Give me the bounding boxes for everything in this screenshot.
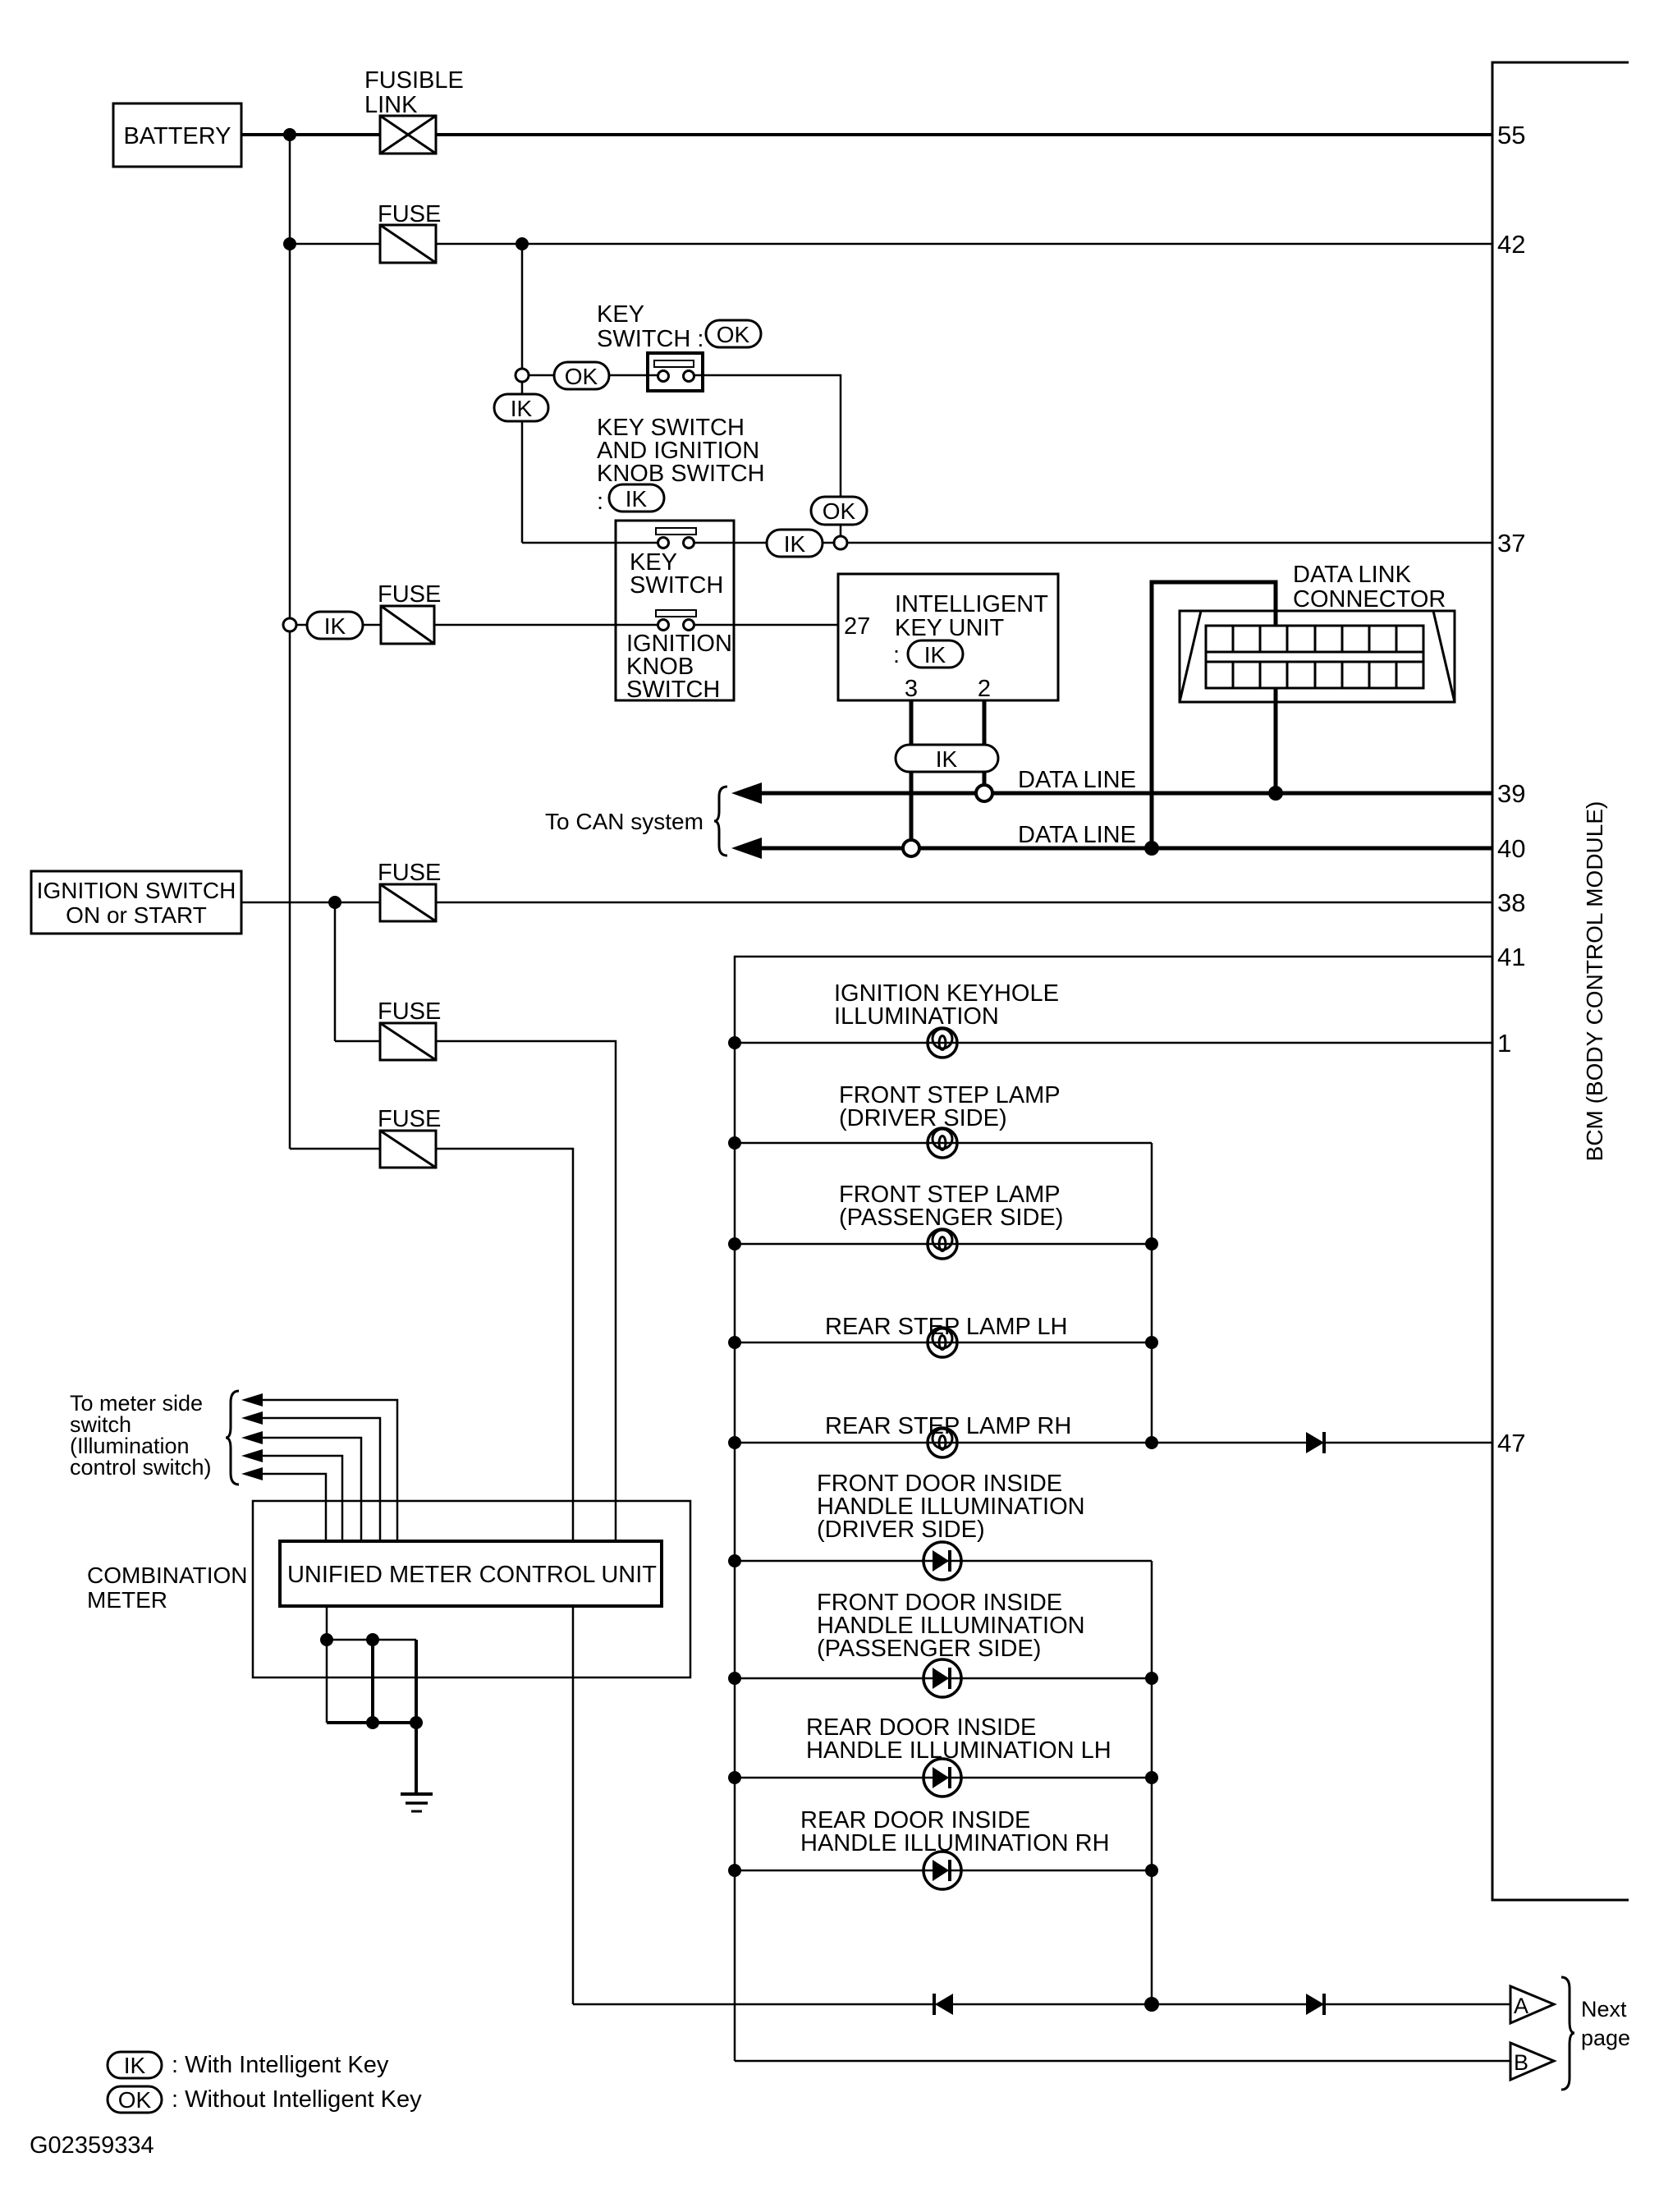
svg-text:ON or START: ON or START: [66, 902, 207, 928]
wire segment after knob contacts to intelligent key unit: [694, 624, 838, 626]
IK pill on key switch output: [767, 530, 823, 557]
node: collector / front step passenger: [1145, 1237, 1158, 1251]
svg-text:page: page: [1581, 2026, 1630, 2050]
wire: fuse row to BCM pin 42: [290, 243, 1492, 246]
node: lamp bus / handle RH: [728, 1864, 741, 1877]
wire: rear step lamp LH branch: [735, 1342, 1152, 1344]
arrowhead: CAN data line 39: [731, 782, 762, 804]
IK pill in unit: [908, 640, 963, 668]
node: collector / handle RH: [1145, 1864, 1158, 1877]
svg-text:KNOB SWITCH: KNOB SWITCH: [597, 461, 765, 487]
svg-text:: With Intelligent Key: : With Intelligent Key: [172, 2052, 389, 2078]
wire: [415, 1640, 418, 1723]
LED: rear door inside handle illumination RH: [923, 1852, 961, 1889]
svg-text:: Without Intelligent Key: : Without Intelligent Key: [172, 2086, 422, 2113]
svg-text:(PASSENGER SIDE): (PASSENGER SIDE): [839, 1205, 1063, 1231]
svg-text:(DRIVER SIDE): (DRIVER SIDE): [817, 1517, 985, 1543]
OK pill on switch output: [811, 497, 867, 525]
ground: [401, 1794, 433, 1811]
IK pill before fuse F2: [307, 612, 363, 639]
svg-text:CONNECTOR: CONNECTOR: [1293, 586, 1446, 613]
wire: handle illumination collector vertical: [1151, 1561, 1153, 2004]
wire: front step lamp driver branch: [735, 1142, 1152, 1145]
svg-text:FUSE: FUSE: [378, 998, 441, 1025]
wire: data line to BCM pin 39 (thick): [757, 792, 1492, 796]
svg-text:SWITCH: SWITCH: [630, 572, 723, 599]
svg-text:REAR STEP LAMP LH: REAR STEP LAMP LH: [825, 1314, 1067, 1340]
svg-text:IK: IK: [324, 613, 346, 639]
svg-text:55: 55: [1497, 121, 1525, 149]
node: lamp bus / front step driver: [728, 1136, 741, 1150]
svg-text:IK: IK: [124, 2053, 146, 2078]
svg-text:BCM (BODY CONTROL MODULE): BCM (BODY CONTROL MODULE): [1582, 801, 1607, 1162]
key switch (OK version) symbol box: [648, 353, 703, 391]
wire: IK unit pin 2 (thick): [983, 700, 987, 793]
node: collector / rear step LH: [1145, 1336, 1158, 1349]
combination meter illumination control wires with arrows: [261, 1400, 397, 1541]
node: ground tree 3: [366, 1716, 379, 1729]
battery box: [113, 103, 241, 167]
svg-text:2: 2: [978, 676, 991, 702]
svg-text:(PASSENGER SIDE): (PASSENGER SIDE): [817, 1636, 1041, 1662]
svg-text:REAR STEP LAMP RH: REAR STEP LAMP RH: [825, 1413, 1071, 1439]
ignition knob switch contacts (IK box, lower): [656, 610, 696, 617]
node: data line 39 / DLC join: [1268, 786, 1283, 801]
fuse F5 (meter feed 2): [380, 1131, 436, 1168]
svg-text:IK: IK: [784, 531, 806, 557]
svg-text:control switch): control switch): [70, 1455, 212, 1480]
svg-text:SWITCH: SWITCH: [626, 677, 720, 703]
OK pill before key switch: [554, 362, 609, 389]
svg-text:47: 47: [1497, 1429, 1525, 1457]
svg-text:ILLUMINATION: ILLUMINATION: [834, 1003, 999, 1030]
svg-text:37: 37: [1497, 529, 1525, 558]
ground tree below unified meter control unit: [326, 1606, 328, 1723]
node: data line 40 / DLC join: [1144, 841, 1159, 856]
brace: CAN group: [714, 787, 727, 856]
option connector node (OK/IK split): [516, 369, 529, 382]
svg-text:IK: IK: [924, 642, 946, 668]
wire: front step lamp passenger branch: [735, 1243, 1152, 1246]
svg-text:LINK: LINK: [364, 92, 418, 118]
option circles on data lines: [976, 785, 992, 801]
svg-text:FUSE: FUSE: [378, 581, 441, 608]
legend: OK pill: [108, 2086, 162, 2113]
IK pill on key branch vertical: [494, 394, 548, 421]
OK pill in label: [706, 320, 761, 347]
wire: A line to next page: [573, 2003, 1510, 2006]
wire: rear door handle RH branch: [735, 1870, 1152, 1872]
svg-text:(DRIVER SIDE): (DRIVER SIDE): [839, 1105, 1007, 1131]
svg-text::: :: [893, 642, 900, 668]
svg-text:FUSE: FUSE: [378, 860, 441, 886]
brace: next page group: [1561, 1977, 1574, 2090]
node: ground tree 2: [366, 1633, 379, 1646]
wire: front door handle passenger branch: [735, 1677, 1152, 1680]
diode D1 on pin 47 line: [1306, 1432, 1324, 1453]
svg-text:To CAN system: To CAN system: [545, 809, 703, 834]
node: lamp bus / rear step LH: [728, 1336, 741, 1349]
lamp: front step lamp passenger side: [928, 1229, 957, 1259]
DLC inner terminal grid: [1206, 626, 1423, 688]
arrowhead: CAN data line 40: [731, 838, 762, 859]
wire: IK unit pin 3 (thick): [910, 700, 914, 848]
svg-text:HANDLE ILLUMINATION RH: HANDLE ILLUMINATION RH: [800, 1830, 1110, 1856]
lamp: rear step lamp RH: [928, 1428, 957, 1457]
option circle data line 40: [903, 840, 919, 856]
svg-text:FUSE: FUSE: [378, 1106, 441, 1132]
IK pill in label: [609, 484, 664, 512]
diode D2 on A line (pointing left): [934, 1994, 953, 2015]
svg-text:OK: OK: [823, 498, 856, 524]
node: ignition fuse tap: [328, 896, 341, 909]
svg-text:Next: Next: [1581, 1997, 1627, 2022]
wire: fuse branch vertical x408: [334, 902, 337, 1041]
fuse F4 (meter feed 1): [380, 1023, 436, 1060]
option connector node (IK fuse): [283, 618, 296, 631]
unified meter control unit box: [280, 1541, 662, 1606]
connector B to next page: [1510, 2043, 1554, 2080]
svg-text:DATA LINE: DATA LINE: [1018, 767, 1136, 793]
svg-text:27: 27: [844, 613, 870, 640]
wire: rear door handle LH branch: [735, 1777, 1152, 1779]
svg-text:A: A: [1514, 1994, 1528, 2018]
node: lamp bus / handle passenger: [728, 1672, 741, 1685]
node: collector / handle passenger: [1145, 1672, 1158, 1685]
IK pill on data lines: [896, 745, 998, 772]
node: lamp bus / handle LH: [728, 1771, 741, 1784]
wire to ground: [415, 1723, 418, 1794]
svg-text:DATA LINK: DATA LINK: [1293, 562, 1412, 588]
wire: [327, 1639, 416, 1641]
svg-text:39: 39: [1497, 779, 1525, 808]
connector A to next page: [1510, 1986, 1554, 2023]
svg-text:DATA LINE: DATA LINE: [1018, 822, 1136, 848]
svg-text:METER: METER: [87, 1587, 167, 1613]
fuse F3 (ignition switch, pin 38): [380, 884, 436, 921]
node: collector / A line: [1144, 1997, 1159, 2012]
svg-text:OK: OK: [118, 2087, 152, 2113]
LED: front door inside handle illumination driver side: [923, 1542, 961, 1580]
wire: front door handle driver branch: [735, 1560, 1152, 1563]
svg-text:HANDLE ILLUMINATION LH: HANDLE ILLUMINATION LH: [806, 1737, 1111, 1764]
contact bar: [654, 360, 694, 367]
wire: IK fuse row to ignition knob switch: [296, 624, 658, 626]
wire: DLC branch to data line 40 (thick): [1152, 582, 1276, 848]
fuse F2 (IK key switch feed): [381, 606, 434, 644]
svg-text:BATTERY: BATTERY: [123, 123, 231, 149]
svg-text::: :: [597, 489, 603, 515]
node: ground tree 4: [410, 1716, 423, 1729]
fusible link: [380, 116, 436, 154]
svg-text:IK: IK: [511, 396, 533, 421]
lamp: front step lamp driver side: [928, 1128, 957, 1158]
svg-text:41: 41: [1497, 943, 1525, 971]
svg-text:IK: IK: [626, 486, 648, 512]
wire: DLC lower pin to data line 39 (thick): [1274, 688, 1278, 793]
wire: OK key switch output: [694, 375, 841, 535]
node: lamp bus / handle driver: [728, 1554, 741, 1567]
svg-text:UNIFIED METER CONTROL UNIT: UNIFIED METER CONTROL UNIT: [287, 1562, 657, 1588]
svg-text:INTELLIGENT: INTELLIGENT: [895, 591, 1048, 617]
svg-text:1: 1: [1497, 1029, 1511, 1058]
wire: ignition switch feed to BCM pin 38: [241, 902, 1492, 904]
wire: data line to BCM pin 40 (thick): [757, 847, 1492, 851]
LED: rear door inside handle illumination LH: [923, 1759, 961, 1797]
contacts: [658, 371, 669, 382]
svg-text:B: B: [1514, 2050, 1528, 2075]
wire: B line to next page: [735, 2060, 1510, 2063]
svg-text:38: 38: [1497, 888, 1525, 917]
svg-text:KEY: KEY: [597, 301, 644, 328]
svg-text:G02359334: G02359334: [30, 2132, 154, 2159]
wire: fuse row y1399 to combination meter: [290, 1149, 573, 1541]
node: collector / rear step RH pin47: [1145, 1436, 1158, 1449]
wire: battery feed to BCM pin 55: [241, 133, 1492, 136]
key switch and ignition knob switch box: [616, 521, 734, 700]
svg-text:COMBINATION: COMBINATION: [87, 1563, 247, 1588]
svg-text:KEY UNIT: KEY UNIT: [895, 615, 1005, 641]
wire: ignition keyhole illumination branch, BCM pin 1: [735, 1042, 1492, 1044]
node: lamp bus / rear step RH: [728, 1436, 741, 1449]
lamp: ignition keyhole illumination: [928, 1028, 957, 1058]
wire segment after key switch contacts: [694, 542, 1492, 544]
wire: BCM pin 41 to lamp bus: [735, 957, 1492, 2061]
svg-text:OK: OK: [565, 364, 598, 389]
arrowheads: to meter side switch: [241, 1393, 263, 1480]
svg-text:SWITCH :: SWITCH :: [597, 326, 704, 352]
wire: rear step lamp RH branch to BCM pin 47: [735, 1442, 1492, 1444]
BCM (Body Control Module) box: [1492, 62, 1629, 1900]
node: collector / handle LH: [1145, 1771, 1158, 1784]
ignition switch box: [31, 871, 241, 934]
wire: [327, 1721, 416, 1724]
svg-text:42: 42: [1497, 230, 1525, 259]
svg-text:40: 40: [1497, 834, 1525, 863]
svg-text:3: 3: [905, 676, 918, 702]
node: key branch tap: [516, 237, 529, 250]
key switch contacts (IK box, upper): [656, 528, 696, 535]
node: lamp bus / keyhole branch: [728, 1036, 741, 1049]
lamp: rear step lamp LH: [928, 1328, 957, 1357]
node: fuse 42 tap: [283, 237, 296, 250]
diode D3 on A line (pointing right): [1306, 1994, 1324, 2015]
wire: OK key switch feed: [529, 374, 658, 377]
wire: step lamp collector vertical: [1151, 1143, 1153, 1443]
combination meter outer box: [253, 1501, 690, 1677]
brace: meter side switch group: [226, 1391, 239, 1485]
svg-text:FUSIBLE: FUSIBLE: [364, 67, 464, 94]
wire: key switch row to BCM pin 37: [522, 542, 658, 544]
wire: meter output down to A line: [572, 1604, 575, 2004]
svg-text:IGNITION SWITCH: IGNITION SWITCH: [37, 878, 236, 903]
node: ground tree 1: [320, 1633, 333, 1646]
wire: key-switch branch vertical: [521, 244, 524, 543]
intelligent key unit box: [838, 574, 1058, 700]
wire: fuse row y1268 to combination meter: [335, 1041, 616, 1541]
data link connector housing: [1180, 611, 1455, 702]
LED: front door inside handle illumination passenger side: [923, 1659, 961, 1697]
node: battery split: [283, 128, 296, 141]
legend: IK pill: [108, 2052, 162, 2078]
wire: main battery vertical bus: [289, 135, 291, 1149]
svg-text:FUSE: FUSE: [378, 201, 441, 227]
node: lamp bus / front step passenger: [728, 1237, 741, 1251]
svg-text:IK: IK: [936, 746, 958, 772]
fuse F1 (battery, pin 42): [380, 225, 436, 263]
wire: [371, 1640, 374, 1723]
option connector node (pin 37 merge): [834, 536, 847, 549]
svg-text:OK: OK: [717, 322, 750, 347]
